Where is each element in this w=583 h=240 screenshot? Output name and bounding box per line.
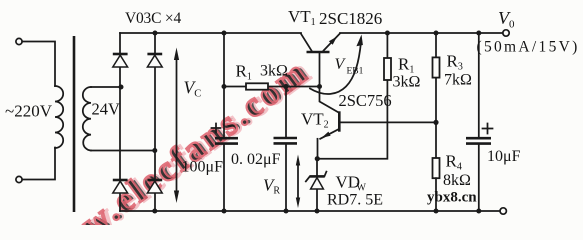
junction dot top rail R2 xyxy=(385,31,390,36)
junction dot VT1 base xyxy=(317,84,322,89)
svg-text:2SC756: 2SC756 xyxy=(339,91,392,110)
wire secondary top to bridge node A xyxy=(91,86,121,88)
junction dot R1-C2 xyxy=(284,84,289,89)
capacitor C2 0.02uF plates xyxy=(274,138,298,143)
wire primary bottom xyxy=(22,148,55,180)
svg-text:0. 02μF: 0. 02μF xyxy=(231,151,281,168)
wire C2 rail xyxy=(285,87,287,212)
svg-text:3kΩ: 3kΩ xyxy=(393,74,421,91)
junction dot R3 R4 base xyxy=(433,120,438,125)
wire bottom rail xyxy=(120,210,500,212)
svg-text:8kΩ: 8kΩ xyxy=(443,172,471,189)
capacitor C3 10uF plates xyxy=(466,138,491,143)
svg-text:24V: 24V xyxy=(92,100,121,119)
VR measure arrow xyxy=(296,155,300,209)
resistor R2 vertical (labelled R1) xyxy=(384,33,391,80)
svg-text:RD7. 5E: RD7. 5E xyxy=(327,192,383,209)
diode D3 xyxy=(113,180,128,193)
diode D4 xyxy=(147,180,162,193)
svg-text:V03C ×4: V03C ×4 xyxy=(125,10,181,27)
node B junction xyxy=(152,148,157,153)
input terminal top xyxy=(16,38,22,44)
wire C3 rail xyxy=(478,33,480,211)
wire VT2 emitter down xyxy=(317,139,319,159)
diode D2 xyxy=(147,54,162,67)
wire feedback to R2 bottom xyxy=(317,80,387,159)
input terminal bottom xyxy=(16,176,22,182)
wire secondary bottom to bridge node B xyxy=(91,150,155,152)
wire bridge column2 xyxy=(154,33,156,211)
wire VT2 base line xyxy=(341,121,436,123)
resistor R3 xyxy=(433,33,440,158)
junction dot top rail C3 xyxy=(476,31,481,36)
capacitor C1 100uF plates xyxy=(215,138,238,143)
wire top rail right xyxy=(340,32,503,34)
C3 plus sign xyxy=(483,124,493,134)
wire VC rail xyxy=(223,33,225,211)
zener diode VDW xyxy=(306,159,327,211)
resistor R4 xyxy=(433,158,440,211)
svg-text:2SC1826: 2SC1826 xyxy=(319,9,382,28)
junction dot top rail VC xyxy=(222,31,227,36)
resistor R1 horizontal xyxy=(224,83,320,89)
junction dot top rail col2 xyxy=(153,31,158,36)
wire bridge column1 xyxy=(119,33,121,211)
VC measure arrow xyxy=(174,48,179,204)
svg-text:3kΩ: 3kΩ xyxy=(260,63,288,80)
transistor VT2 xyxy=(320,111,339,139)
bottom rail junction dots xyxy=(152,209,157,214)
junction dot zener top xyxy=(315,156,320,161)
transformer T1 primary winding xyxy=(55,86,63,148)
diode D1 xyxy=(113,54,128,67)
svg-text:~220V: ~220V xyxy=(5,102,53,121)
junction dot VC-R1 xyxy=(222,84,227,89)
output terminal top xyxy=(503,30,509,36)
svg-text:ybx8.cn: ybx8.cn xyxy=(427,190,477,206)
transistor VT1 xyxy=(301,33,340,112)
VEB1 arrow xyxy=(310,35,363,95)
transformer core xyxy=(73,36,76,212)
svg-text:10μF: 10μF xyxy=(487,148,521,165)
watermark www.elecfans.com xyxy=(28,50,320,240)
svg-text:100μF: 100μF xyxy=(182,158,224,175)
transformer T1 secondary winding 24V xyxy=(83,87,91,151)
wire top rail left xyxy=(120,32,301,34)
output terminal bottom xyxy=(500,208,506,214)
C1 plus sign xyxy=(212,124,221,133)
junction dot top rail R3 xyxy=(434,31,439,36)
svg-text:(50mA/15V): (50mA/15V) xyxy=(477,39,580,56)
svg-text:7kΩ: 7kΩ xyxy=(444,72,472,89)
node A junction xyxy=(119,85,124,90)
wire primary top xyxy=(22,42,55,87)
